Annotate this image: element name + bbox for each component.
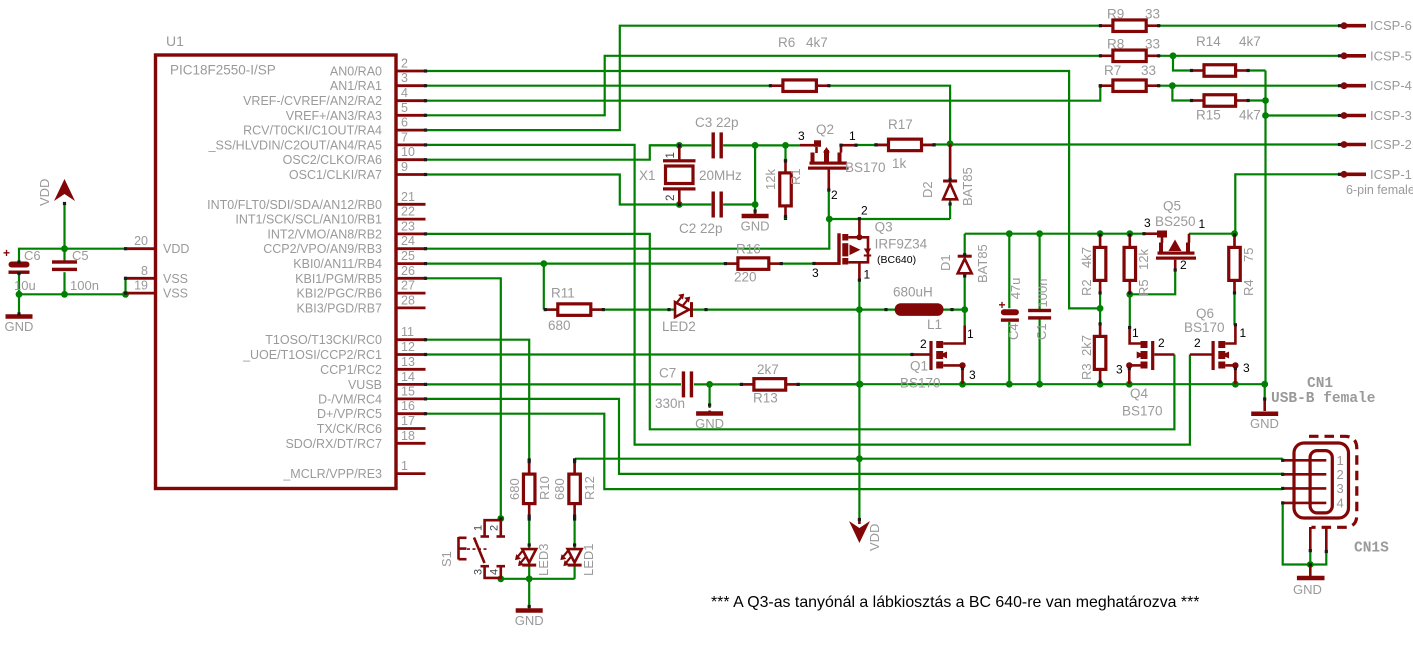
svg-text:GND: GND	[1293, 582, 1322, 597]
svg-text:33: 33	[1145, 7, 1160, 22]
svg-text:LED1: LED1	[581, 543, 596, 576]
svg-text:R16: R16	[736, 242, 761, 257]
svg-text:1k: 1k	[892, 156, 907, 171]
svg-text:26: 26	[401, 264, 415, 278]
svg-text:2: 2	[861, 204, 868, 218]
svg-text:D-/VM/RC4: D-/VM/RC4	[318, 392, 382, 406]
svg-text:BS170: BS170	[1184, 320, 1225, 335]
svg-text:CCP1/RC2: CCP1/RC2	[320, 363, 382, 377]
svg-text:SDO/RX/DT/RC7: SDO/RX/DT/RC7	[285, 437, 382, 451]
svg-text:OSC2/CLKO/RA6: OSC2/CLKO/RA6	[283, 153, 382, 167]
svg-text:33: 33	[1145, 37, 1160, 52]
svg-text:ICSP-1: ICSP-1	[1370, 167, 1412, 182]
svg-text:2k7: 2k7	[757, 362, 779, 377]
svg-text:KBI2/PGC/RB6: KBI2/PGC/RB6	[297, 287, 382, 301]
svg-text:5: 5	[401, 101, 408, 115]
svg-text:10u: 10u	[14, 278, 36, 293]
svg-text:4k7: 4k7	[1239, 108, 1261, 123]
svg-text:RCV/T0CKI/C1OUT/RA4: RCV/T0CKI/C1OUT/RA4	[243, 124, 382, 138]
svg-text:_SS/HLVDIN/C2OUT/AN4/RA5: _SS/HLVDIN/C2OUT/AN4/RA5	[208, 138, 382, 152]
svg-text:27: 27	[401, 279, 415, 293]
svg-text:BAT85: BAT85	[975, 244, 990, 283]
svg-text:Q4: Q4	[1130, 386, 1149, 401]
svg-text:IRF9Z34: IRF9Z34	[875, 237, 928, 252]
svg-text:4k7: 4k7	[1079, 247, 1094, 268]
svg-text:U1: U1	[166, 33, 184, 49]
svg-text:7: 7	[401, 130, 408, 144]
svg-text:14: 14	[401, 370, 415, 384]
svg-text:AN0/RA0: AN0/RA0	[330, 65, 382, 79]
svg-text:R7: R7	[1104, 63, 1121, 78]
svg-text:KBI3/PGD/RB7: KBI3/PGD/RB7	[297, 301, 382, 315]
svg-text:2: 2	[401, 57, 408, 71]
svg-text:C7: C7	[659, 366, 676, 381]
svg-text:6-pin female: 6-pin female	[1346, 183, 1413, 197]
svg-text:100n: 100n	[1035, 279, 1050, 308]
svg-text:R10: R10	[537, 476, 552, 500]
svg-text:VDD: VDD	[37, 179, 52, 206]
svg-text:1: 1	[1132, 326, 1139, 340]
svg-text:3: 3	[1144, 216, 1151, 230]
svg-text:(BC640): (BC640)	[877, 254, 916, 266]
svg-text:C4: C4	[1006, 323, 1021, 340]
svg-text:Q1: Q1	[910, 359, 928, 374]
svg-text:VSS: VSS	[163, 272, 188, 286]
svg-text:3: 3	[1243, 361, 1250, 375]
svg-text:*** A Q3-as tanyónál a lábkio: *** A Q3-as tanyónál a lábkiosztás a BC …	[711, 594, 1199, 611]
svg-text:R4: R4	[1241, 279, 1256, 296]
svg-text:3: 3	[969, 368, 976, 382]
svg-text:1: 1	[1240, 326, 1247, 340]
svg-text:3: 3	[1337, 481, 1344, 496]
svg-text:Q3: Q3	[875, 219, 893, 234]
svg-text:R14: R14	[1196, 34, 1221, 49]
svg-text:18: 18	[401, 429, 415, 443]
svg-text:1: 1	[401, 459, 408, 473]
svg-text:GND: GND	[1250, 416, 1279, 431]
svg-text:C2 22p: C2 22p	[679, 221, 723, 236]
svg-text:2: 2	[1337, 467, 1344, 482]
svg-text:ICSP-6: ICSP-6	[1370, 18, 1412, 33]
svg-text:R1: R1	[788, 168, 803, 185]
svg-text:LED3: LED3	[536, 543, 551, 576]
svg-text:Q5: Q5	[1163, 199, 1181, 214]
svg-text:T1OSO/T13CKI/RC0: T1OSO/T13CKI/RC0	[265, 333, 382, 347]
svg-text:680: 680	[507, 478, 522, 500]
svg-text:R12: R12	[582, 476, 597, 500]
svg-text:R6: R6	[778, 35, 795, 50]
svg-text:C3 22p: C3 22p	[695, 115, 739, 130]
svg-text:4: 4	[1337, 495, 1344, 510]
svg-text:R5: R5	[1136, 279, 1151, 296]
svg-text:ICSP-4: ICSP-4	[1370, 78, 1412, 93]
svg-text:20: 20	[134, 234, 148, 248]
svg-text:33: 33	[1141, 63, 1156, 78]
svg-text:17: 17	[401, 414, 415, 428]
svg-text:R2: R2	[1079, 279, 1094, 296]
svg-text:TX/CK/RC6: TX/CK/RC6	[317, 422, 382, 436]
svg-text:2: 2	[489, 525, 501, 531]
svg-text:R15: R15	[1196, 108, 1221, 123]
svg-text:3: 3	[798, 129, 805, 143]
svg-text:C5: C5	[72, 248, 89, 263]
svg-text:ICSP-5: ICSP-5	[1370, 48, 1412, 63]
svg-text:C1: C1	[1034, 323, 1049, 340]
svg-text:8: 8	[141, 264, 148, 278]
svg-text:1: 1	[967, 327, 974, 341]
svg-text:GND: GND	[741, 219, 770, 234]
svg-text:28: 28	[401, 293, 415, 307]
svg-text:3: 3	[812, 266, 819, 280]
svg-text:16: 16	[401, 399, 415, 413]
svg-text:75: 75	[1241, 248, 1256, 262]
svg-text:20MHz: 20MHz	[699, 168, 742, 183]
svg-text:S1: S1	[439, 551, 454, 567]
svg-text:VREF-/CVREF/AN2/RA2: VREF-/CVREF/AN2/RA2	[243, 94, 382, 108]
svg-text:12k: 12k	[1136, 249, 1151, 270]
svg-text:100n: 100n	[70, 278, 99, 293]
svg-text:BAT85: BAT85	[960, 167, 975, 206]
svg-text:4k7: 4k7	[806, 35, 828, 50]
svg-text:USB-B female: USB-B female	[1271, 391, 1375, 407]
svg-text:680: 680	[552, 478, 567, 500]
svg-text:1: 1	[665, 152, 677, 158]
svg-text:INT0/FLT0/SDI/SDA/AN12/RB0: INT0/FLT0/SDI/SDA/AN12/RB0	[207, 198, 382, 212]
svg-text:_UOE/T1OSI/CCP2/RC1: _UOE/T1OSI/CCP2/RC1	[242, 348, 382, 362]
svg-text:R11: R11	[551, 286, 575, 301]
svg-text:2k7: 2k7	[1079, 335, 1094, 356]
svg-text:GND: GND	[515, 613, 544, 628]
svg-text:1: 1	[1199, 217, 1206, 231]
svg-text:12: 12	[401, 340, 415, 354]
svg-text:3: 3	[473, 569, 485, 575]
svg-text:INT2/VMO/AN8/RB2: INT2/VMO/AN8/RB2	[267, 227, 382, 241]
svg-text:22: 22	[401, 205, 415, 219]
svg-text:11: 11	[401, 325, 414, 339]
svg-text:VREF+/AN3/RA3: VREF+/AN3/RA3	[286, 109, 382, 123]
svg-text:VDD: VDD	[163, 242, 189, 256]
svg-text:D+/VP/RC5: D+/VP/RC5	[317, 407, 382, 421]
svg-text:_MCLR/VPP/RE3: _MCLR/VPP/RE3	[282, 467, 382, 481]
svg-text:VSS: VSS	[163, 287, 188, 301]
svg-text:GND: GND	[5, 319, 34, 334]
svg-text:2: 2	[665, 195, 677, 201]
svg-text:1: 1	[864, 268, 871, 282]
svg-text:CCP2/VPO/AN9/RB3: CCP2/VPO/AN9/RB3	[263, 242, 382, 256]
svg-text:13: 13	[401, 355, 415, 369]
svg-text:3: 3	[1116, 363, 1123, 377]
svg-text:LED2: LED2	[662, 319, 696, 334]
svg-text:R17: R17	[888, 117, 913, 132]
svg-text:GND: GND	[695, 416, 724, 431]
svg-text:1: 1	[473, 525, 485, 531]
svg-text:2: 2	[920, 337, 927, 351]
svg-text:680: 680	[548, 318, 571, 333]
svg-text:24: 24	[401, 234, 415, 248]
svg-text:VUSB: VUSB	[348, 378, 382, 392]
svg-text:ICSP-2: ICSP-2	[1370, 137, 1412, 152]
svg-text:23: 23	[401, 219, 415, 233]
svg-text:ICSP-3: ICSP-3	[1370, 108, 1412, 123]
svg-text:4: 4	[489, 569, 501, 575]
svg-text:C6: C6	[24, 248, 41, 263]
svg-text:1: 1	[1337, 453, 1344, 468]
svg-text:VDD: VDD	[867, 524, 882, 551]
svg-text:21: 21	[401, 190, 415, 204]
svg-text:R9: R9	[1107, 7, 1124, 22]
svg-text:220: 220	[734, 270, 757, 285]
svg-text:X1: X1	[639, 168, 656, 183]
svg-text:BS170: BS170	[900, 376, 941, 391]
svg-text:R13: R13	[753, 391, 778, 406]
svg-text:Q6: Q6	[1196, 306, 1214, 321]
svg-text:2: 2	[1194, 336, 1201, 350]
svg-text:BS170: BS170	[1122, 404, 1163, 419]
svg-text:15: 15	[401, 384, 415, 398]
svg-text:330n: 330n	[655, 396, 685, 411]
svg-text:6: 6	[401, 116, 408, 130]
svg-text:19: 19	[134, 279, 148, 293]
svg-text:INT1/SCK/SCL/AN10/RB1: INT1/SCK/SCL/AN10/RB1	[235, 213, 382, 227]
svg-text:2: 2	[1158, 336, 1165, 350]
svg-text:BS250: BS250	[1155, 214, 1196, 229]
svg-text:9: 9	[401, 160, 408, 174]
svg-text:+: +	[3, 246, 10, 260]
svg-text:D1: D1	[938, 254, 953, 271]
svg-text:2: 2	[1180, 258, 1187, 272]
svg-text:4k7: 4k7	[1239, 34, 1261, 49]
svg-text:AN1/RA1: AN1/RA1	[330, 79, 382, 93]
svg-text:680uH: 680uH	[893, 285, 933, 300]
svg-text:+: +	[999, 298, 1006, 312]
svg-text:BS170: BS170	[845, 160, 886, 175]
svg-text:L1: L1	[927, 317, 942, 332]
svg-text:2: 2	[831, 188, 838, 202]
svg-text:D2: D2	[920, 181, 935, 198]
svg-text:CN1S: CN1S	[1354, 541, 1389, 557]
svg-text:25: 25	[401, 249, 415, 263]
svg-text:Q2: Q2	[816, 122, 834, 137]
svg-text:KBI0/AN11/RB4: KBI0/AN11/RB4	[293, 257, 382, 271]
svg-text:OSC1/CLKI/RA7: OSC1/CLKI/RA7	[289, 168, 382, 182]
svg-text:47u: 47u	[1008, 278, 1023, 300]
svg-text:CN1: CN1	[1307, 376, 1333, 392]
svg-text:10: 10	[401, 145, 415, 159]
svg-text:PIC18F2550-I/SP: PIC18F2550-I/SP	[170, 63, 276, 78]
svg-text:3: 3	[401, 71, 408, 85]
svg-text:1: 1	[849, 129, 856, 143]
svg-text:R3: R3	[1079, 363, 1094, 380]
svg-text:KBI1/PGM/RB5: KBI1/PGM/RB5	[295, 272, 382, 286]
svg-text:4: 4	[401, 86, 408, 100]
svg-text:12k: 12k	[763, 169, 778, 190]
svg-text:R8: R8	[1107, 37, 1124, 52]
